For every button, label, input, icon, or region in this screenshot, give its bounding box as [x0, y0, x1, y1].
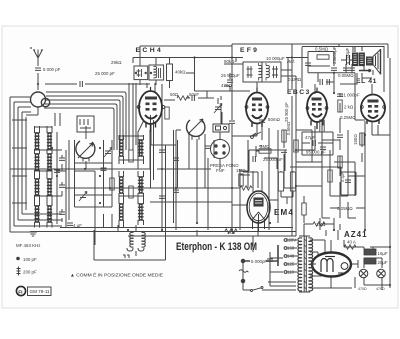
svg-text:5 000pF: 5 000pF [251, 259, 267, 264]
svg-text:1kΩ: 1kΩ [227, 230, 235, 235]
svg-text:90kΩ: 90kΩ [224, 59, 234, 64]
svg-text:200 pF: 200 pF [23, 270, 37, 275]
svg-text:50Ω: 50Ω [170, 92, 178, 97]
svg-text:470Ω: 470Ω [376, 287, 385, 291]
svg-text:40 A: 40 A [347, 240, 356, 245]
svg-text:5 000 pF: 5 000 pF [43, 67, 61, 72]
svg-text:25 000 pF: 25 000 pF [95, 71, 115, 76]
svg-text:25 900μF: 25 900μF [221, 73, 240, 78]
svg-text:4 μF: 4 μF [73, 223, 82, 228]
svg-text:0.25MΩ: 0.25MΩ [337, 206, 353, 211]
svg-text:125: 125 [287, 262, 295, 267]
svg-text:Eterphon - K 138 OM: Eterphon - K 138 OM [176, 241, 257, 253]
svg-text:29kΩ: 29kΩ [111, 60, 121, 65]
svg-text:110: 110 [287, 270, 295, 275]
svg-text:10 000μF: 10 000μF [266, 56, 285, 61]
svg-text:160: 160 [287, 246, 295, 251]
svg-text:25 000 pF: 25 000 pF [263, 157, 283, 162]
svg-text:0.1μF: 0.1μF [341, 172, 345, 182]
svg-text:FNF: FNF [216, 168, 225, 173]
svg-text:MF 463 KHz: MF 463 KHz [16, 243, 40, 248]
svg-text:1MΩ: 1MΩ [316, 222, 325, 227]
svg-text:4 700μF: 4 700μF [345, 47, 350, 64]
svg-text:140: 140 [287, 254, 295, 259]
svg-text:2 kΩ: 2 kΩ [344, 105, 353, 110]
svg-text:EL 41: EL 41 [356, 78, 377, 85]
svg-text:20μF: 20μF [378, 260, 388, 265]
svg-text:PRESA FONO: PRESA FONO [210, 163, 239, 168]
svg-text:FI: FI [18, 289, 23, 295]
svg-text:220V: 220V [286, 238, 296, 243]
svg-text:150Ω: 150Ω [353, 134, 358, 145]
svg-text:GM 79-11: GM 79-11 [30, 289, 51, 294]
svg-text:25000μF: 25000μF [332, 46, 337, 64]
svg-text:AZ41: AZ41 [344, 230, 368, 239]
svg-text:21 000pF: 21 000pF [341, 93, 360, 98]
svg-text:0.5MΩ: 0.5MΩ [315, 47, 328, 52]
svg-text:EF9: EF9 [240, 47, 259, 54]
svg-text:EM4: EM4 [274, 208, 294, 217]
svg-text:EBC3: EBC3 [287, 89, 311, 96]
svg-text:1MΩ: 1MΩ [236, 168, 245, 173]
svg-text:100 pF: 100 pF [23, 257, 37, 262]
svg-text:50mΩ: 50mΩ [268, 117, 280, 122]
svg-text:470Ω: 470Ω [358, 287, 367, 291]
svg-text:Ref.: Ref. [287, 59, 295, 64]
svg-text:95 000 μF: 95 000 μF [306, 150, 326, 155]
svg-text:0.05MΩ: 0.05MΩ [338, 73, 354, 78]
svg-text:3MΩ: 3MΩ [260, 144, 269, 149]
svg-text:▲ COMM É IN POSIZIONE ONDE MED: ▲ COMM É IN POSIZIONE ONDE MEDIE [70, 272, 163, 279]
svg-text:0.25MΩ: 0.25MΩ [340, 115, 356, 120]
svg-text:47μF: 47μF [305, 135, 315, 140]
svg-text:0.1MΩ: 0.1MΩ [288, 77, 301, 82]
svg-text:16μF: 16μF [378, 251, 388, 256]
svg-text:470Ω: 470Ω [221, 83, 232, 88]
svg-text:25 900 pF: 25 900 pF [284, 102, 289, 122]
svg-text:40kΩ: 40kΩ [175, 70, 185, 75]
svg-text:50pF: 50pF [189, 92, 199, 97]
svg-text:0.5MΩ: 0.5MΩ [286, 122, 291, 135]
